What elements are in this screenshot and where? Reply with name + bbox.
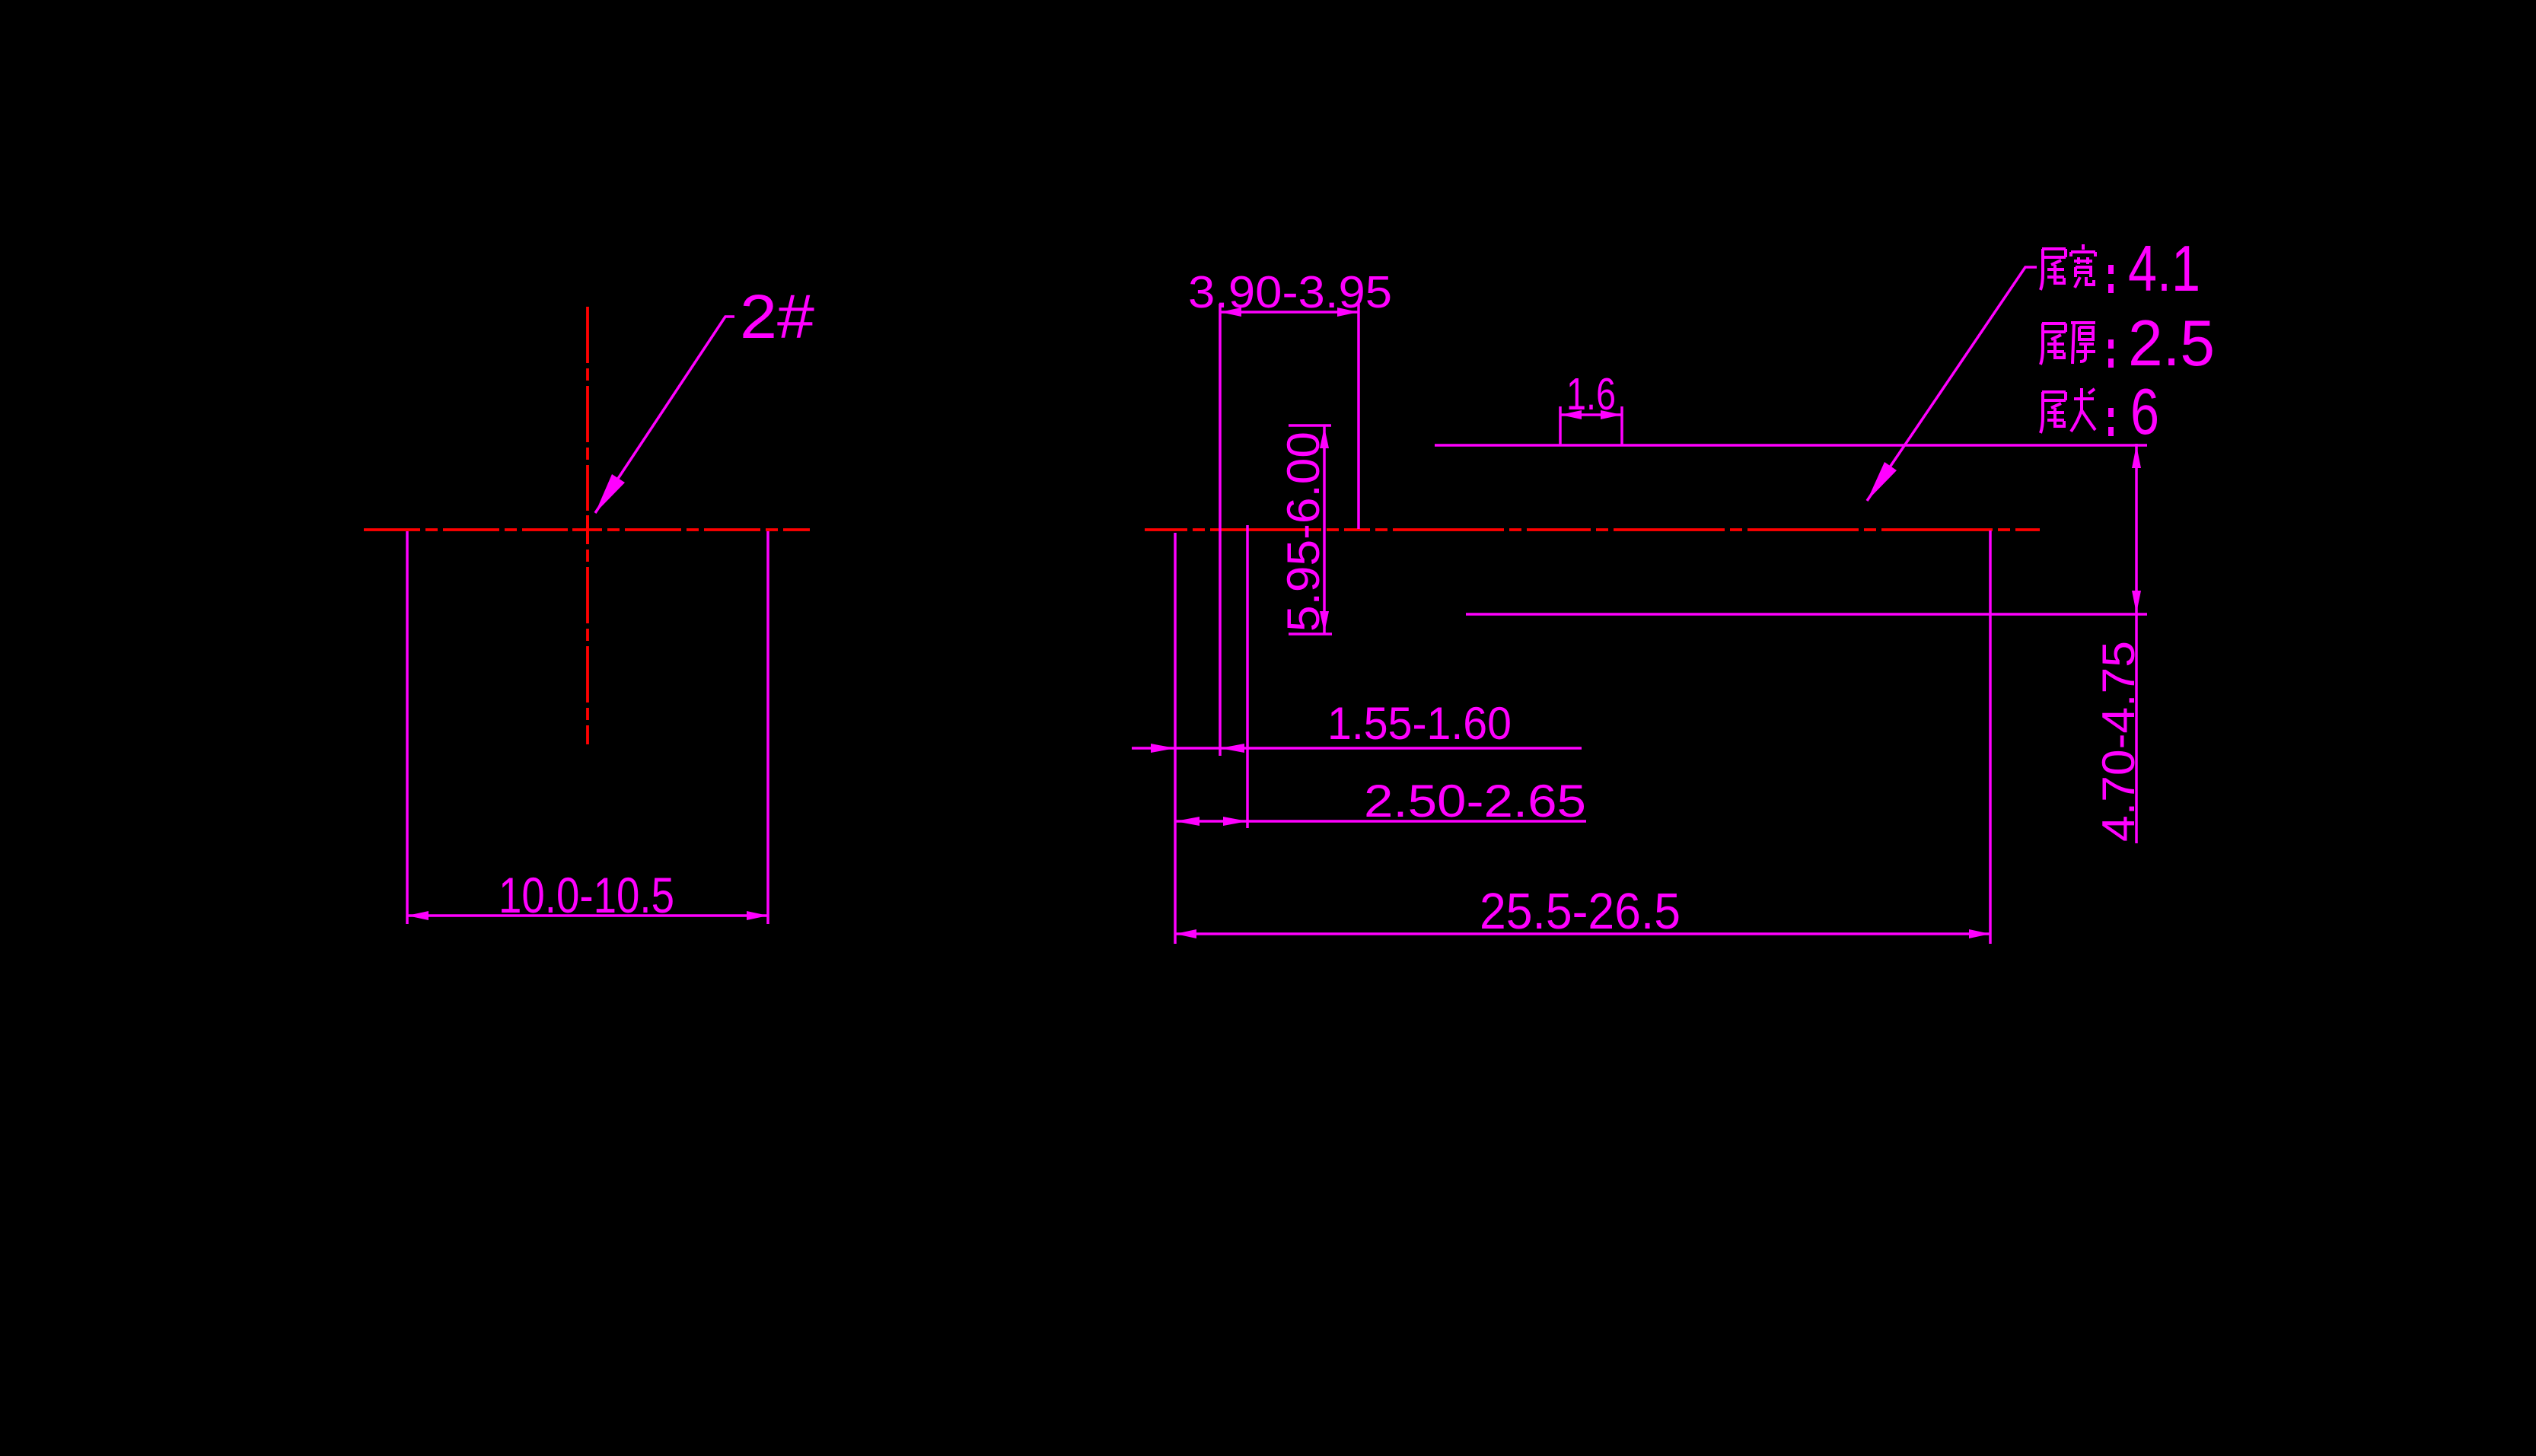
svg-text:25.5-26.5: 25.5-26.5: [1480, 883, 1681, 940]
svg-text:4.70-4.75: 4.70-4.75: [2093, 641, 2144, 842]
dimension line 1.6: [1560, 413, 1622, 416]
part bottom edge: [1466, 613, 2147, 616]
horizontal centerline right figure (red dash-dot): [1145, 528, 2040, 531]
extension line right of 25.5-26.5 (x=2615): [1989, 530, 1992, 944]
right extension line of 10.0-10.5: [766, 531, 769, 924]
arrowhead (outside right) of 1.55-1.60: [1220, 744, 1244, 753]
center cross mark horizontal: [572, 528, 602, 531]
arrowhead top of 4.70-4.75: [2132, 445, 2141, 468]
leader line to tail: [1867, 267, 2037, 501]
dimension line 10.0-10.5: [407, 914, 768, 917]
horizontal centerline (red dash-dot): [364, 528, 810, 531]
arrowhead right of 3.90-3.95: [1337, 307, 1359, 317]
leader line 2#: [595, 317, 734, 513]
extension line C (x=1639): [1246, 525, 1249, 828]
svg-text:2#: 2#: [740, 282, 814, 352]
arrowhead left of 2.50-2.65: [1175, 817, 1200, 826]
extension tick bottom of 5.95-6.00: [1289, 632, 1332, 636]
svg-text:1.6: 1.6: [1566, 369, 1616, 419]
center cross mark vertical: [586, 515, 589, 544]
extension tick top of 5.95-6.00: [1289, 424, 1331, 427]
extension line right of 1.6: [1620, 406, 1623, 445]
extension line B (x=1603): [1219, 304, 1222, 756]
arrowhead right of 10.0-10.5: [747, 911, 768, 920]
extension line A (left, x=1544): [1174, 533, 1177, 944]
svg-text:4.1: 4.1: [2128, 233, 2200, 305]
arrowhead (outside left) of 1.55-1.60: [1151, 744, 1175, 753]
svg-text:2.50-2.65: 2.50-2.65: [1364, 776, 1586, 827]
arrowhead left of 25.5-26.5: [1175, 929, 1196, 938]
dimension line 2.50-2.65: [1175, 820, 1586, 823]
svg-text:6: 6: [2130, 376, 2159, 448]
arrowhead bottom of 4.70-4.75: [2132, 591, 2141, 613]
arrowhead left of 3.90-3.95: [1220, 307, 1241, 317]
arrowhead left of 1.6: [1560, 410, 1582, 419]
arrowhead bottom of 5.95-6.00: [1320, 611, 1329, 632]
arrowhead top of 5.95-6.00: [1320, 427, 1329, 448]
arrowhead right of 2.50-2.65: [1223, 817, 1247, 826]
dimension line 5.95-6.00 (vertical): [1323, 425, 1326, 634]
dimension line 4.70-4.75 (vertical): [2135, 444, 2138, 843]
arrowhead right of 25.5-26.5: [1969, 929, 1990, 938]
arrowhead left of 10.0-10.5: [407, 911, 429, 920]
vertical centerline (red dash-dot): [586, 307, 589, 744]
part top edge: [1435, 444, 2147, 447]
svg-text:5.95-6.00: 5.95-6.00: [1278, 432, 1329, 632]
left extension line of 10.0-10.5: [406, 531, 409, 924]
label 尾厚: (tail thickness): [2041, 323, 2066, 365]
label 尾长: (tail length): [2041, 392, 2066, 433]
arrowhead right of 1.6: [1601, 410, 1622, 419]
extension line D (x=1785): [1357, 304, 1360, 529]
leader arrowhead 2#: [595, 474, 625, 513]
svg-text:1.55-1.60: 1.55-1.60: [1327, 698, 1512, 749]
extension line left of 1.6: [1559, 406, 1562, 445]
dimension line 1.55-1.60: [1132, 747, 1582, 750]
dimension line 3.90-3.95: [1220, 311, 1359, 314]
svg-text:2.5: 2.5: [2128, 307, 2215, 380]
dimension line 25.5-26.5: [1175, 932, 1990, 935]
svg-text:3.90-3.95: 3.90-3.95: [1188, 267, 1392, 317]
leader arrowhead to tail: [1867, 462, 1897, 501]
svg-text:10.0-10.5: 10.0-10.5: [499, 867, 674, 923]
label 尾宽: (tail width): [2041, 249, 2066, 290]
